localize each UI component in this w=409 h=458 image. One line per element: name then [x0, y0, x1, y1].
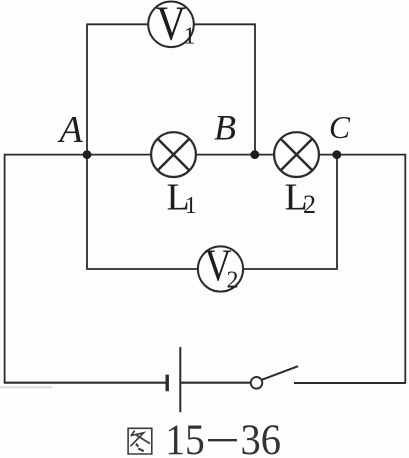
svg-text:1: 1: [184, 24, 196, 50]
svg-text:1: 1: [185, 193, 197, 219]
label L1: [167, 177, 197, 219]
node A (junction dot): [83, 150, 92, 159]
wire: right outer vertical: [404, 154, 406, 384]
wire: A up to V1 left lead: [87, 24, 148, 155]
svg-text:2: 2: [227, 268, 239, 294]
svg-text:2: 2: [303, 190, 316, 219]
svg-text:36: 36: [241, 417, 282, 458]
wire: left outer vertical: [4, 154, 6, 384]
svg-text:A: A: [57, 109, 84, 151]
switch S: blade: [262, 366, 298, 380]
wire: bottom left to battery: [5, 382, 166, 384]
wire: V2 right lead to C: [244, 155, 338, 269]
svg-text:C: C: [329, 110, 351, 145]
node C (junction dot): [332, 150, 341, 159]
battery: short (negative) plate: [165, 375, 168, 392]
wire: left edge to lamp L1: [5, 154, 151, 156]
wire: lamp L2 through node C to right edge: [320, 154, 406, 156]
label L2: [285, 177, 317, 220]
voltmeter V1: [148, 0, 195, 51]
wire: lamp L1 to lamp L2 (through node B): [197, 154, 275, 156]
wire: V1 right lead down to node B: [195, 24, 256, 154]
lamp L1: [151, 132, 196, 177]
wire: battery to switch: [181, 382, 252, 384]
battery: long (positive) plate: [179, 347, 181, 412]
wire: A down and right to V2 left lead: [87, 155, 198, 269]
wire: switch fixed contact to right edge: [294, 382, 405, 384]
node B (junction dot): [250, 150, 259, 159]
caption: hanzi 图 (drawn): [128, 428, 152, 454]
lamp L2: [274, 132, 319, 177]
voltmeter V2: [198, 241, 243, 294]
switch S: pivot circle: [251, 377, 263, 389]
svg-text:15: 15: [165, 417, 205, 458]
scan ghost line (faint): [0, 386, 52, 388]
svg-text:B: B: [214, 108, 236, 148]
svg-text:V: V: [156, 0, 186, 51]
caption: long dash: [208, 439, 237, 441]
